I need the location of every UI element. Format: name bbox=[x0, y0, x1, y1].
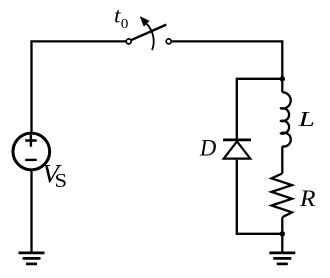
wire junction to inductor top bbox=[281, 79, 283, 93]
svg-text:L: L bbox=[297, 107, 315, 131]
wire switch to top-right corner and down bbox=[171, 41, 282, 78]
wire top-left L (left vertical + top horizontal to switch) bbox=[32, 41, 127, 131]
wire bottom junction to ground bbox=[281, 234, 283, 252]
wire resistor to bottom junction bbox=[281, 217, 283, 234]
wire diode bottom to bottom rail bbox=[237, 160, 282, 234]
voltage source VS plus bbox=[25, 134, 37, 146]
switch SW arrowhead bbox=[140, 17, 149, 26]
svg-text:D: D bbox=[199, 136, 217, 161]
node junction top bbox=[280, 76, 285, 81]
switch SW blade bbox=[131, 25, 167, 41]
svg-text:R: R bbox=[299, 186, 316, 211]
ground right bbox=[269, 253, 295, 264]
svg-text:0: 0 bbox=[121, 17, 129, 32]
inductor L coil bbox=[281, 92, 291, 146]
switch SW left terminal node bbox=[126, 39, 131, 44]
ground left bbox=[19, 253, 45, 264]
diode D cathode bar bbox=[223, 139, 251, 142]
svg-text:S: S bbox=[55, 171, 68, 192]
voltage source VS minus bbox=[25, 159, 37, 161]
wire voltage source to ground bbox=[30, 170, 32, 252]
diode D triangle bbox=[224, 141, 251, 158]
switch SW right terminal node bbox=[166, 39, 171, 44]
wire junction to diode branch top bbox=[237, 79, 282, 139]
wire inductor to resistor bbox=[281, 146, 283, 173]
switch SW opening arc bbox=[146, 23, 154, 50]
node junction bottom bbox=[280, 231, 285, 236]
voltage source VS circle bbox=[13, 133, 50, 170]
resistor R zigzag bbox=[272, 174, 293, 218]
